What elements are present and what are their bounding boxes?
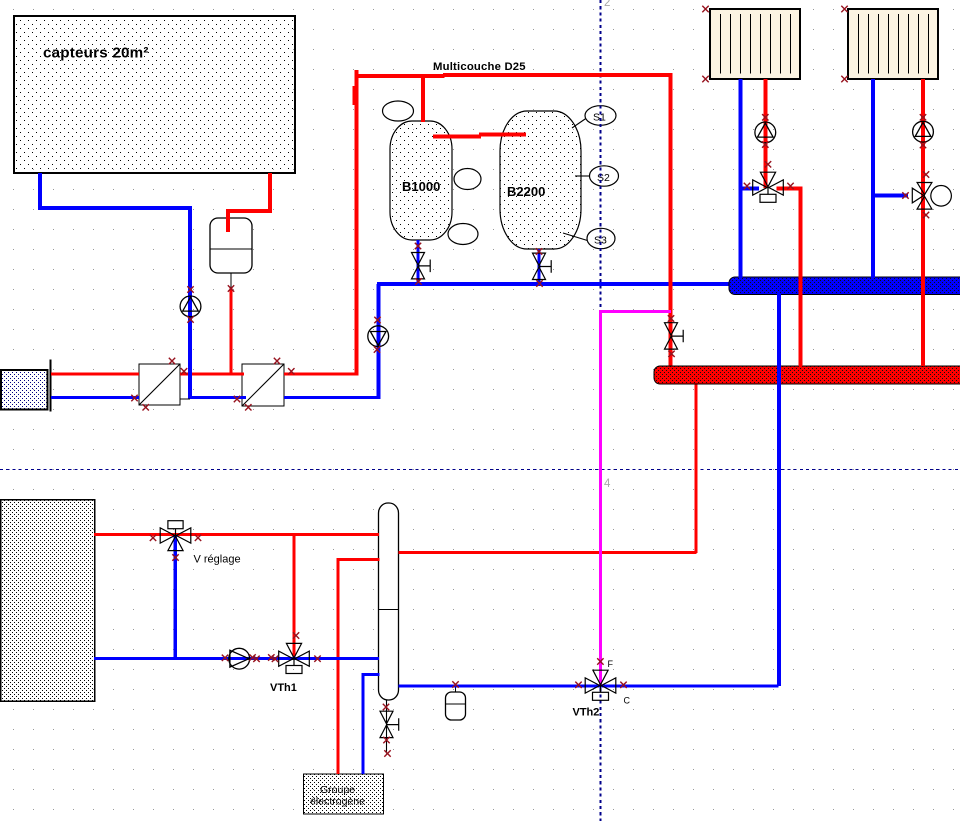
pump radiator 1 <box>755 122 776 143</box>
balancing valve V reglage <box>160 521 191 551</box>
wire: blue from source tank to exchanger 1 lower port <box>51 396 139 399</box>
wire: red Multicouche return drop (right) <box>669 75 673 366</box>
wire: magenta vertical to VTh2 <box>599 312 602 685</box>
connection x-marks <box>702 6 708 12</box>
wire: blue corner to exchanger 2 lower port <box>188 396 246 399</box>
wire: blue radiator2 return drop <box>871 79 875 278</box>
page boundary dashed line horizontal <box>0 469 960 471</box>
three-way valve VTh2 <box>585 670 616 700</box>
pump collector circuit <box>180 296 201 317</box>
three-way valve VTh1 <box>279 643 310 673</box>
sensor S1 callout <box>572 106 616 128</box>
wire: red exchanger1 to exchanger2 upper port <box>180 373 244 376</box>
svg-text:capteurs 20m²: capteurs 20m² <box>43 45 149 62</box>
wire: red radiator1 supply drop <box>763 79 767 188</box>
wire: red Multicouche top header <box>355 74 445 78</box>
svg-text:F: F <box>608 659 614 669</box>
wire: blue solar pump riser <box>377 284 381 399</box>
plate heat exchanger 1 <box>139 364 180 405</box>
svg-text:VTh1: VTh1 <box>270 682 297 694</box>
wire: blue main secondary return header <box>377 282 734 286</box>
wire: magenta horizontal to red return <box>599 310 671 313</box>
wire: blue collector horizontal <box>38 206 192 210</box>
hydraulic separator (tall bottle) <box>379 503 399 700</box>
svg-text:B2200: B2200 <box>507 184 545 199</box>
wire: black stub exchanger1 right lower port <box>180 398 190 399</box>
wire: red horizontal into expansion vessel <box>226 209 272 213</box>
solar collector panel "capteurs 20m2" <box>14 16 295 173</box>
valve below separator <box>380 700 399 754</box>
cold source open tank (bottom-left of solar circuit) <box>1 360 52 412</box>
wire: red radiator1 valve to bar <box>777 186 803 190</box>
wire: red radiator2 supply drop <box>921 79 925 366</box>
wire: red corner to generator <box>337 558 340 774</box>
valve below B2200 <box>533 253 552 279</box>
wire: red drop to VTh1 <box>293 536 296 659</box>
wire: blue over red crossing patch <box>188 372 192 377</box>
building / heat load block (lower-left) <box>1 500 95 702</box>
expansion vessel (secondary circuit) <box>446 687 466 720</box>
wire: red horizontal to separator right side <box>399 551 697 554</box>
wire: red from source tank to exchanger 1 upper port <box>51 373 139 376</box>
wire: blue stub into radiator2 valve <box>873 194 908 198</box>
wire: red exchanger2 right port to solar riser corner <box>284 373 358 376</box>
sensor ellipse between tanks (lower) <box>448 224 478 245</box>
wire: blue V reglage drop <box>174 536 178 659</box>
svg-text:S1: S1 <box>593 112 606 124</box>
plate heat exchanger 2 <box>242 364 284 406</box>
thermostatic valve radiator 2 <box>912 183 951 210</box>
svg-text:B1000: B1000 <box>402 179 440 194</box>
buffer tank B2200 <box>500 111 581 249</box>
wire: red stub into expansion vessel top <box>226 209 230 232</box>
wire: blue exchanger2 right port to riser corner <box>284 396 380 399</box>
wire: blue secondary return separator to riser <box>399 685 779 688</box>
red bar distribution manifold <box>654 366 960 384</box>
wire: red link B1000 to B2200 <box>433 135 481 139</box>
svg-text:V réglage: V réglage <box>194 554 241 566</box>
wire: blue corner to generator <box>362 673 365 774</box>
sensor S2 callout <box>575 166 619 186</box>
valve below B1000 <box>412 253 431 279</box>
wire: blue return from building through VTh1 <box>94 657 379 660</box>
svg-text:C: C <box>624 696 631 706</box>
wire: blue collector outlet down <box>38 173 42 208</box>
wire: blue radiator1 return drop <box>739 79 743 278</box>
wire: red supply from building <box>94 533 379 536</box>
pump heating circuit VTh1 <box>229 648 250 669</box>
blue bar distribution manifold <box>729 277 960 295</box>
radiator 1 <box>710 9 800 79</box>
svg-text:VTh2: VTh2 <box>573 707 600 719</box>
wire: blue drop to exchangers through pump <box>188 206 192 399</box>
svg-text:4: 4 <box>604 478 611 490</box>
svg-text:électrogène: électrogène <box>310 796 365 808</box>
sensor ellipse between tanks (upper) <box>454 169 481 190</box>
wire: red expansion vessel drop to exchanger line <box>230 288 233 375</box>
wire: blue drop B1000 to main <box>417 240 420 284</box>
valve on red return line <box>665 323 684 349</box>
svg-text:S2: S2 <box>597 172 610 184</box>
wire: blue drop B2200 to main <box>538 249 541 284</box>
generator box "Groupe electrogene" <box>304 774 384 814</box>
buffer tank B1000 <box>390 121 452 240</box>
wire: red riser thick joint bump <box>353 86 359 105</box>
wire: red down-feed from red bar to separator <box>695 384 698 553</box>
svg-text:Groupe: Groupe <box>320 784 355 796</box>
sensor S3 callout <box>563 228 615 248</box>
pump radiator 2 <box>913 121 934 142</box>
wire: blue riser bar to bottom circuit <box>777 294 781 686</box>
solar expansion vessel <box>210 218 252 288</box>
svg-text:2: 2 <box>604 0 610 9</box>
pump solar secondary <box>368 326 389 347</box>
sensor ellipse top-left of B1000 <box>383 101 414 121</box>
wire: blue stub into radiator1 valve <box>740 186 759 190</box>
wire: red drop into B1000 top <box>421 77 425 122</box>
radiator 2 <box>848 9 938 79</box>
wire: red collector return down right side <box>268 173 272 213</box>
wire: red solar riser (Multicouche) <box>355 70 359 376</box>
three-way valve radiator 1 <box>753 172 784 202</box>
svg-text:Multicouche D25: Multicouche D25 <box>433 61 526 73</box>
page boundary dashed line vertical <box>600 0 602 821</box>
